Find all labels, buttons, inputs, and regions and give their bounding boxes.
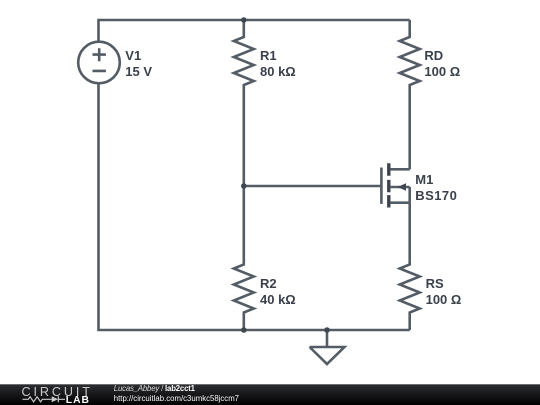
svg-text:Lucas_Abbey / lab2cct1: Lucas_Abbey / lab2cct1 [114, 384, 196, 393]
svg-text:V1: V1 [125, 48, 141, 63]
svg-text:RD: RD [424, 48, 443, 63]
svg-text:40 kΩ: 40 kΩ [260, 292, 296, 307]
svg-text:RS: RS [426, 276, 444, 291]
svg-text:100 Ω: 100 Ω [426, 292, 462, 307]
svg-text:BS170: BS170 [415, 188, 457, 203]
svg-text:M1: M1 [415, 172, 433, 187]
svg-text:80 kΩ: 80 kΩ [260, 64, 296, 79]
svg-text:http://circuitlab.com/c3umkc58: http://circuitlab.com/c3umkc58jccm7 [114, 394, 239, 403]
svg-text:R2: R2 [260, 276, 277, 291]
svg-text:15 V: 15 V [125, 64, 152, 79]
svg-text:R1: R1 [260, 48, 277, 63]
svg-text:100 Ω: 100 Ω [424, 64, 460, 79]
svg-text:LAB: LAB [66, 395, 90, 405]
